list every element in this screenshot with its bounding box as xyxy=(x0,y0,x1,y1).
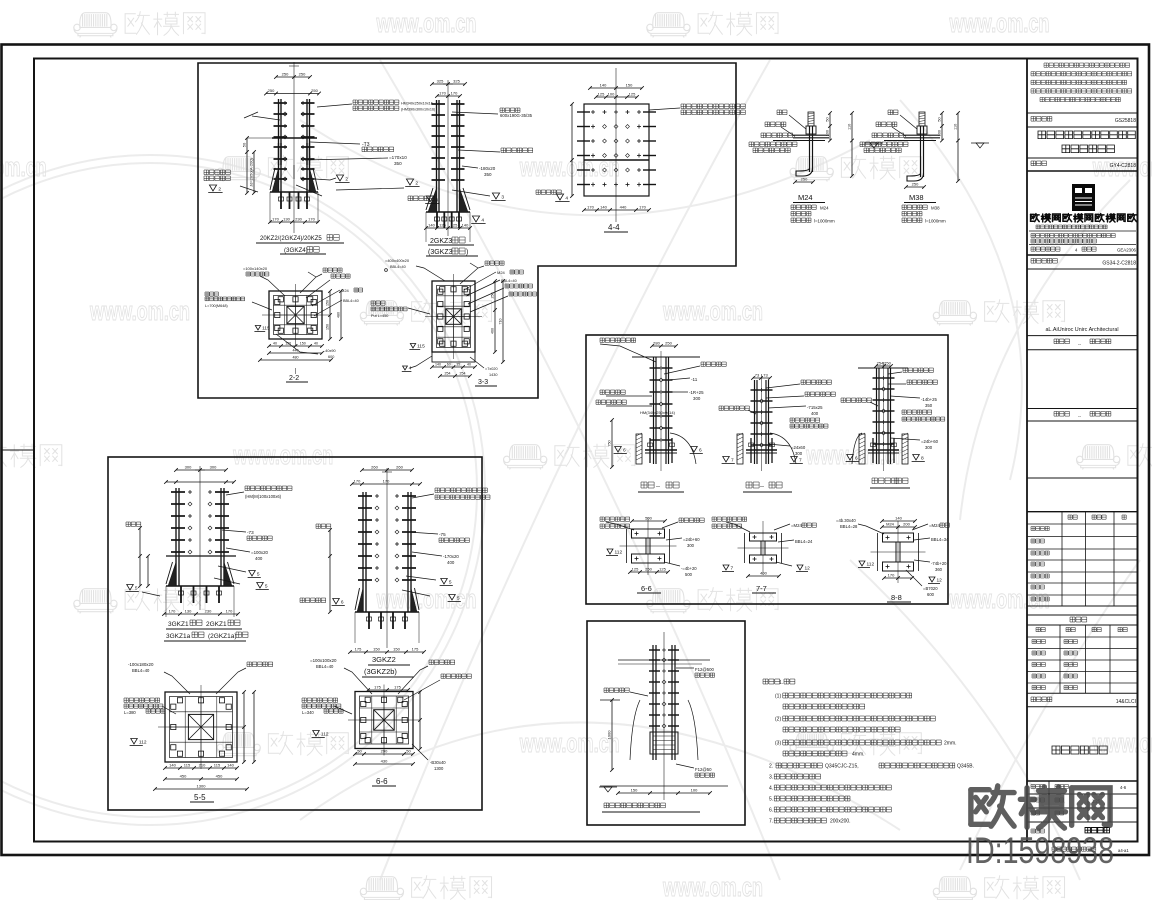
svg-text:600: 600 xyxy=(328,355,334,359)
svg-text:500: 500 xyxy=(645,516,652,521)
anchor bolt detail M38 xyxy=(860,110,989,223)
svg-text:7: 7 xyxy=(731,566,734,572)
svg-text:250: 250 xyxy=(311,88,318,93)
title block grid xyxy=(1026,59,1028,842)
svg-text:F12@50: F12@50 xyxy=(695,767,712,772)
label row 5 xyxy=(1054,412,1070,417)
title block notes cell text xyxy=(1031,63,1132,102)
svg-text:GEA2306: GEA2306 xyxy=(1117,248,1137,253)
svg-text:300: 300 xyxy=(795,451,803,456)
svg-text:-74b+20: -74b+20 xyxy=(931,561,947,566)
svg-text:250: 250 xyxy=(299,72,306,77)
svg-text:170: 170 xyxy=(888,573,895,578)
svg-text:--: -- xyxy=(1078,341,1082,346)
svg-text:-=4b+20: -=4b+20 xyxy=(681,566,697,571)
svg-text:210: 210 xyxy=(199,763,206,768)
svg-text:Jd=2050(A-200): Jd=2050(A-200) xyxy=(249,157,254,186)
big omw logo text xyxy=(971,786,1110,828)
svg-text:254: 254 xyxy=(445,372,451,376)
svg-text:140: 140 xyxy=(600,205,607,210)
svg-text:-100x180x20: -100x180x20 xyxy=(128,662,154,667)
svg-text:F12@500: F12@500 xyxy=(695,667,715,672)
title block label row 1 xyxy=(1031,117,1052,122)
svg-text:5.: 5. xyxy=(769,797,773,803)
svg-text:Put L=450: Put L=450 xyxy=(371,314,388,318)
svg-text:Q345CJC-Z15,: Q345CJC-Z15, xyxy=(825,764,859,770)
svg-text:(3GKZ4): (3GKZ4) xyxy=(284,247,308,254)
detail group box B outline xyxy=(108,457,482,810)
strip text under title block xyxy=(1052,847,1096,851)
svg-text:2: 2 xyxy=(345,177,348,183)
svg-text:(HM390x300x10x16): (HM390x300x10x16) xyxy=(401,107,435,111)
steel column detail C2 xyxy=(719,373,835,493)
svg-text:440: 440 xyxy=(620,205,627,210)
svg-text:6: 6 xyxy=(699,448,702,454)
svg-text:400: 400 xyxy=(255,556,263,561)
svg-text:170: 170 xyxy=(272,217,279,222)
detail group box C outline xyxy=(586,335,948,604)
svg-text:www.om.cn: www.om.cn xyxy=(376,584,477,614)
svg-text:125: 125 xyxy=(451,223,458,228)
svg-text:=4b.30x40: =4b.30x40 xyxy=(836,518,856,523)
svg-text:140: 140 xyxy=(227,763,234,768)
svg-text:125: 125 xyxy=(659,567,666,572)
svg-text:l=1000mm: l=1000mm xyxy=(925,218,946,223)
svg-text:360: 360 xyxy=(935,567,943,572)
svg-text:112: 112 xyxy=(615,550,623,556)
svg-text:710: 710 xyxy=(499,319,503,325)
svg-text:=400x400x20: =400x400x20 xyxy=(385,258,410,263)
svg-text:170: 170 xyxy=(383,479,390,484)
svg-text:150: 150 xyxy=(326,324,330,330)
svg-text:254: 254 xyxy=(877,361,884,366)
svg-text:www.om.cn: www.om.cn xyxy=(662,872,763,900)
svg-text:1300: 1300 xyxy=(434,766,444,771)
svg-text:250: 250 xyxy=(268,88,275,93)
svg-text:140: 140 xyxy=(600,83,607,88)
svg-text:www.om.cn: www.om.cn xyxy=(519,728,620,758)
svg-text:50: 50 xyxy=(826,117,830,121)
svg-text:170: 170 xyxy=(639,205,646,210)
svg-text:-14b+25: -14b+25 xyxy=(921,397,937,402)
svg-text:300: 300 xyxy=(185,465,192,470)
svg-text:-715x25: -715x25 xyxy=(807,405,823,410)
svg-text:www.om.cn: www.om.cn xyxy=(89,296,190,326)
svg-text:-170x20: -170x20 xyxy=(443,554,459,559)
svg-text:50: 50 xyxy=(406,749,411,754)
svg-text:130: 130 xyxy=(283,217,290,222)
svg-text:7: 7 xyxy=(731,458,734,464)
svg-text:3: 3 xyxy=(435,198,438,204)
svg-text:115: 115 xyxy=(417,344,425,350)
svg-text:150: 150 xyxy=(393,647,400,652)
svg-text:-B30x40: -B30x40 xyxy=(430,760,446,765)
svg-text:750: 750 xyxy=(608,440,612,446)
svg-text:175: 175 xyxy=(412,647,419,652)
svg-text:6-6: 6-6 xyxy=(641,584,652,593)
binding mark left margin xyxy=(2,449,34,451)
svg-text:ID:1598938: ID:1598938 xyxy=(966,830,1114,871)
svg-text:140: 140 xyxy=(462,223,469,228)
column detail D1 xyxy=(599,632,728,812)
svg-text:350: 350 xyxy=(925,403,933,408)
svg-text:=100x140x20: =100x140x20 xyxy=(243,266,268,271)
svg-text:-73: -73 xyxy=(247,530,254,535)
svg-text:GS25818: GS25818 xyxy=(1115,118,1136,124)
svg-text:HM(340x250x9x14): HM(340x250x9x14) xyxy=(640,410,676,415)
svg-text:125: 125 xyxy=(632,567,639,572)
svg-text:460: 460 xyxy=(491,328,495,334)
section detail C5 7-7 xyxy=(712,517,816,593)
svg-text:100: 100 xyxy=(938,130,942,136)
svg-text:HM340x250x10x16: HM340x250x10x16 xyxy=(401,101,433,105)
svg-text:=24x60: =24x60 xyxy=(791,445,806,450)
svg-text:BBL4=40: BBL4=40 xyxy=(132,668,150,673)
svg-text:8: 8 xyxy=(921,456,924,462)
svg-text:BBL4=40: BBL4=40 xyxy=(343,299,359,303)
svg-text:200: 200 xyxy=(903,522,910,527)
svg-text:(3GKZ3: (3GKZ3 xyxy=(428,249,453,256)
svg-text:170: 170 xyxy=(451,91,458,96)
svg-text:73: 73 xyxy=(755,373,760,378)
svg-text:=170x10: =170x10 xyxy=(389,155,407,160)
svg-text:--: -- xyxy=(1078,414,1082,419)
svg-text:140: 140 xyxy=(435,363,441,367)
svg-text:3.: 3. xyxy=(769,775,773,781)
svg-text:150: 150 xyxy=(373,647,380,652)
svg-text:73: 73 xyxy=(763,373,768,378)
general notes text xyxy=(763,679,974,825)
svg-text:130: 130 xyxy=(185,609,192,614)
svg-text:2-2: 2-2 xyxy=(289,375,299,382)
svg-text:4.: 4. xyxy=(769,786,773,792)
svg-text:112: 112 xyxy=(867,562,875,568)
svg-text:BBL4=24: BBL4=24 xyxy=(795,539,813,544)
title block label row 3 xyxy=(1031,259,1057,264)
svg-text:6: 6 xyxy=(341,600,344,606)
svg-text:12: 12 xyxy=(937,578,943,584)
svg-text:=100x100x20: =100x100x20 xyxy=(310,658,337,663)
svg-text:250: 250 xyxy=(801,177,808,182)
svg-text:www.om.cn: www.om.cn xyxy=(376,8,477,38)
svg-text:175: 175 xyxy=(355,647,362,652)
svg-text:M24: M24 xyxy=(497,270,506,275)
svg-text:6: 6 xyxy=(623,448,626,454)
svg-text:-180x20: -180x20 xyxy=(479,166,496,171)
svg-text:40: 40 xyxy=(467,363,471,367)
svg-text:8-8: 8-8 xyxy=(891,593,902,602)
steel column detail C3 xyxy=(841,361,945,489)
svg-text:112: 112 xyxy=(321,732,329,738)
svg-text:-11: -11 xyxy=(691,377,698,382)
svg-text:450: 450 xyxy=(216,774,223,779)
svg-text:2GKZ3: 2GKZ3 xyxy=(430,238,452,245)
svg-text:35: 35 xyxy=(456,363,460,367)
svg-text:230: 230 xyxy=(205,609,212,614)
svg-text:=M24: =M24 xyxy=(791,523,802,528)
upper table xyxy=(1027,512,1138,606)
svg-text:=7x020: =7x020 xyxy=(485,367,498,371)
svg-text:2.: 2. xyxy=(769,764,773,770)
svg-text:115: 115 xyxy=(214,763,221,768)
svg-text:3GKZ2: 3GKZ2 xyxy=(372,655,396,664)
label row 6 xyxy=(1031,697,1052,702)
svg-text:BBL4=40: BBL4=40 xyxy=(390,265,406,269)
bottom table xyxy=(1031,781,1127,842)
svg-text:150: 150 xyxy=(631,788,638,793)
weld flag E1 left xyxy=(204,170,230,175)
svg-text:300: 300 xyxy=(925,445,933,450)
svg-text:=100x20: =100x20 xyxy=(251,550,269,555)
svg-text:325: 325 xyxy=(453,79,460,84)
svg-text:350: 350 xyxy=(394,161,402,166)
svg-text:480: 480 xyxy=(337,312,341,318)
svg-text:BBL4=40: BBL4=40 xyxy=(501,279,517,283)
svg-text:l=1000mm: l=1000mm xyxy=(814,218,835,223)
plan detail B4 6-6 xyxy=(302,658,471,786)
svg-text:125: 125 xyxy=(598,92,605,97)
svg-text:40: 40 xyxy=(314,342,318,346)
svg-text:M24: M24 xyxy=(341,288,350,293)
huiqian band xyxy=(1070,617,1087,622)
svg-text:-1R+25: -1R+25 xyxy=(689,390,704,395)
svg-text:3GKZ1: 3GKZ1 xyxy=(168,621,189,628)
svg-text:250: 250 xyxy=(282,72,289,77)
svg-text:BBL4=40: BBL4=40 xyxy=(316,664,334,669)
section detail C4 6-6 xyxy=(600,516,704,594)
svg-text:(2): (2) xyxy=(775,717,781,723)
svg-text:140: 140 xyxy=(895,516,902,521)
label row 4 xyxy=(1054,339,1070,344)
svg-text:400: 400 xyxy=(760,571,767,576)
svg-text:=24b+60: =24b+60 xyxy=(683,537,700,542)
svg-text:BBL4=28: BBL4=28 xyxy=(840,524,858,529)
detail group box D outline xyxy=(587,621,745,825)
svg-text:4-4: 4-4 xyxy=(608,223,620,232)
svg-text:L=340: L=340 xyxy=(302,710,314,715)
svg-text:280: 280 xyxy=(653,341,660,346)
svg-text:(HM)M(100x100x6): (HM)M(100x100x6) xyxy=(245,494,282,499)
svg-text:5: 5 xyxy=(449,580,452,586)
svg-text:100: 100 xyxy=(826,130,830,136)
svg-text:350: 350 xyxy=(484,172,492,177)
svg-text:7.: 7. xyxy=(769,819,773,825)
svg-text:40: 40 xyxy=(273,342,277,346)
column elevation B1 3GKZ1 xyxy=(126,465,292,642)
svg-text:115: 115 xyxy=(184,763,191,768)
svg-text:50: 50 xyxy=(938,117,942,121)
svg-text:=B7020: =B7020 xyxy=(923,586,938,591)
svg-text:1430: 1430 xyxy=(489,373,497,377)
drawing name cell xyxy=(1052,746,1107,754)
svg-text:3: 3 xyxy=(501,195,504,201)
svg-text:250: 250 xyxy=(912,182,919,187)
svg-text:250: 250 xyxy=(665,341,672,346)
svg-text:2: 2 xyxy=(218,187,221,193)
svg-text:325: 325 xyxy=(437,79,444,84)
svg-text:7-7: 7-7 xyxy=(756,584,767,593)
svg-text:400: 400 xyxy=(811,411,819,416)
detail group box A outline xyxy=(198,63,736,398)
svg-text:230: 230 xyxy=(295,217,302,222)
lower table xyxy=(1027,625,1138,693)
svg-text:1000: 1000 xyxy=(607,730,612,740)
svg-text:(3): (3) xyxy=(775,741,781,747)
svg-text:4mm.: 4mm. xyxy=(852,752,865,758)
svg-text:www.om.cn: www.om.cn xyxy=(233,440,334,470)
svg-text:--: -- xyxy=(760,484,764,490)
svg-text:1300: 1300 xyxy=(197,784,207,789)
svg-text:100: 100 xyxy=(691,788,698,793)
svg-text:300: 300 xyxy=(687,543,695,548)
svg-text:(2GKZ1a): (2GKZ1a) xyxy=(208,633,237,640)
svg-text:3-3: 3-3 xyxy=(478,379,488,386)
svg-text:170: 170 xyxy=(169,609,176,614)
svg-text:7: 7 xyxy=(799,458,802,464)
svg-text:-40x90: -40x90 xyxy=(324,349,336,353)
svg-text:430: 430 xyxy=(381,759,388,764)
design institute name bold xyxy=(1031,214,1137,222)
svg-text:20KZ2/(2GKZ4)/20KZ5: 20KZ2/(2GKZ4)/20KZ5 xyxy=(260,236,322,242)
plan detail B3 5-5 xyxy=(124,662,273,802)
svg-text:a4-a1: a4-a1 xyxy=(1118,848,1129,853)
svg-text:112: 112 xyxy=(139,740,147,746)
svg-text:www.om.cn: www.om.cn xyxy=(1092,728,1152,758)
svg-text:600: 600 xyxy=(927,592,935,597)
svg-text:2: 2 xyxy=(415,181,418,187)
svg-text:2GKZ1: 2GKZ1 xyxy=(206,621,227,628)
svg-text:250: 250 xyxy=(884,361,891,366)
institute sub lines xyxy=(1036,225,1107,229)
svg-text:14&CLCI: 14&CLCI xyxy=(1116,699,1136,705)
svg-text:3GKZ1a: 3GKZ1a xyxy=(166,633,191,640)
svg-text:=M24: =M24 xyxy=(929,523,940,528)
svg-text:L=380: L=380 xyxy=(124,710,136,715)
svg-text:12: 12 xyxy=(805,566,811,572)
svg-text:300: 300 xyxy=(210,465,217,470)
svg-text:GY4-C2818: GY4-C2818 xyxy=(1110,163,1137,169)
svg-text:140: 140 xyxy=(169,763,176,768)
anchor bolt detail M24 xyxy=(749,110,883,223)
svg-text:290: 290 xyxy=(381,749,388,754)
svg-text:BBL4=34: BBL4=34 xyxy=(931,537,949,542)
column elevation B2 3GKZ2 xyxy=(300,465,490,692)
svg-text:150: 150 xyxy=(326,300,330,306)
svg-text:www.om.cn: www.om.cn xyxy=(949,8,1050,38)
svg-text:4: 4 xyxy=(481,218,484,224)
svg-text:115: 115 xyxy=(262,326,270,332)
svg-text:M38: M38 xyxy=(909,193,924,202)
title block project name cell xyxy=(1038,131,1135,139)
svg-text:140: 140 xyxy=(428,223,435,228)
svg-text:M38: M38 xyxy=(931,206,940,211)
svg-text:): ) xyxy=(466,249,468,256)
svg-text:aL.AiUniroc Unirc Architectura: aL.AiUniroc Unirc Architectural xyxy=(1045,327,1118,333)
svg-text:200x200.: 200x200. xyxy=(830,819,851,825)
svg-text:www.om.cn: www.om.cn xyxy=(0,152,47,182)
svg-text:5-5: 5-5 xyxy=(194,793,206,802)
svg-text:6: 6 xyxy=(855,456,858,462)
svg-text:--: -- xyxy=(656,484,660,490)
svg-text:300: 300 xyxy=(693,396,701,401)
svg-text:5: 5 xyxy=(257,572,260,578)
svg-text:2mm.: 2mm. xyxy=(944,741,957,747)
svg-text:110: 110 xyxy=(848,124,852,130)
svg-text:www.om.cn: www.om.cn xyxy=(519,152,620,182)
svg-text:150: 150 xyxy=(300,342,306,346)
svg-text:450: 450 xyxy=(180,774,187,779)
svg-text:4-6: 4-6 xyxy=(1120,785,1127,790)
svg-text:M24: M24 xyxy=(798,193,813,202)
plan detail P1 2-2 xyxy=(205,266,363,382)
svg-text:5: 5 xyxy=(457,596,460,602)
svg-text:5: 5 xyxy=(265,584,268,590)
svg-text:170: 170 xyxy=(308,217,315,222)
svg-text:100: 100 xyxy=(608,92,615,97)
svg-text:125: 125 xyxy=(439,223,446,228)
plan detail P2 3-3 xyxy=(371,258,537,386)
svg-text:600x190G-35/35: 600x190G-35/35 xyxy=(500,113,533,118)
svg-text:125: 125 xyxy=(629,92,636,97)
plate detail E3 4-4 xyxy=(536,68,745,232)
svg-text:170: 170 xyxy=(226,609,233,614)
svg-text:6-6: 6-6 xyxy=(376,777,388,786)
steel column detail C1 xyxy=(596,338,726,492)
svg-text:=24b+60: =24b+60 xyxy=(921,439,939,444)
svg-text:260: 260 xyxy=(396,465,403,470)
svg-text:M24: M24 xyxy=(886,522,895,527)
column elevation E1 20KZ2 xyxy=(204,62,435,254)
svg-text:170: 170 xyxy=(587,205,594,210)
svg-text:260: 260 xyxy=(371,465,378,470)
svg-text:-75: -75 xyxy=(439,532,446,537)
title block label row 2 xyxy=(1031,161,1047,166)
svg-text:254: 254 xyxy=(460,372,466,376)
svg-text:110: 110 xyxy=(954,124,958,130)
svg-text:150: 150 xyxy=(626,83,633,88)
svg-text:(3GKZ2b): (3GKZ2b) xyxy=(364,667,397,676)
section detail C6 8-8 xyxy=(836,516,949,603)
svg-text:480: 480 xyxy=(293,356,299,360)
column elevation E2 2GKZ3 xyxy=(408,79,533,257)
svg-text:www.om.cn: www.om.cn xyxy=(662,296,763,326)
svg-text:50: 50 xyxy=(357,749,362,754)
svg-text:Q345B.: Q345B. xyxy=(957,764,974,770)
svg-text:400: 400 xyxy=(447,560,455,565)
svg-text:(1): (1) xyxy=(775,694,781,700)
svg-text:M24: M24 xyxy=(820,206,829,211)
svg-text:170: 170 xyxy=(439,91,446,96)
svg-text:GS34-2-C2818: GS34-2-C2818 xyxy=(1102,261,1136,267)
design institute logo xyxy=(1072,184,1095,211)
svg-text:L=700(M648): L=700(M648) xyxy=(205,304,228,308)
svg-text:175: 175 xyxy=(394,685,401,690)
svg-text:175: 175 xyxy=(374,685,381,690)
svg-text:250: 250 xyxy=(645,567,652,572)
svg-text:5: 5 xyxy=(135,586,138,592)
svg-text:6.: 6. xyxy=(769,808,773,814)
svg-text:1.: 1. xyxy=(779,680,783,686)
svg-text:170: 170 xyxy=(354,479,361,484)
svg-text:50: 50 xyxy=(242,142,247,147)
svg-text:4: 4 xyxy=(565,196,568,202)
svg-text:500: 500 xyxy=(685,572,693,577)
svg-text:60: 60 xyxy=(447,363,451,367)
svg-text:4: 4 xyxy=(409,366,412,372)
